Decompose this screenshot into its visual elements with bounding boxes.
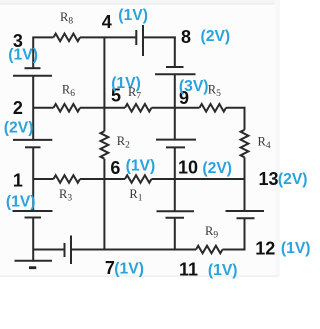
svg-text:(1V): (1V) — [208, 262, 238, 279]
svg-text:(2V): (2V) — [4, 119, 34, 136]
svg-text:6: 6 — [110, 158, 120, 178]
middle rail lower (6 to 7) — [103, 159, 105, 250]
wire to right corner — [226, 107, 245, 109]
resistor R5 — [200, 104, 227, 112]
resistor R3 — [54, 175, 81, 183]
right rail top (from R5 corner) — [244, 107, 246, 130]
battery 3-2 short plate — [25, 67, 41, 69]
svg-text:(1V): (1V) — [6, 193, 36, 210]
resistor R1 — [125, 175, 152, 183]
battery 10-11 short plate — [166, 217, 185, 219]
battery 13-12 short plate — [237, 217, 255, 219]
left rail lower — [32, 147, 34, 211]
faint top band — [0, 0, 275, 4]
middle rail upper (4 to 5) — [103, 36, 105, 131]
bottom battery short plate — [64, 243, 66, 257]
svg-text:8: 8 — [181, 27, 191, 47]
svg-text:(1V): (1V) — [111, 75, 141, 92]
left rail upper — [32, 36, 34, 68]
wire top: node 3 to battery — [33, 36, 53, 38]
svg-text:(2V): (2V) — [278, 171, 308, 188]
svg-text:4: 4 — [102, 12, 112, 32]
battery 1-gnd long plate — [13, 210, 53, 212]
canvas cell background — [0, 4, 275, 276]
right rail to node 12 corner — [244, 218, 246, 250]
svg-text:(2V): (2V) — [202, 160, 232, 177]
svg-text:(2V): (2V) — [201, 28, 231, 45]
svg-text:12: 12 — [255, 239, 275, 259]
battery V4-8 short plate — [135, 30, 137, 45]
battery 10-11 long plate — [157, 210, 195, 212]
resistor R6 — [54, 104, 81, 112]
battery 8-9 long plate — [155, 73, 196, 75]
svg-text:2: 2 — [13, 98, 23, 118]
wire node5 — [80, 107, 125, 109]
rail 9 to battery — [174, 74, 176, 139]
resistor R2 — [101, 131, 109, 159]
resistor R8 — [54, 34, 81, 42]
battery 9-10 long plate — [156, 139, 196, 141]
battery 1-gnd short plate — [25, 217, 42, 219]
battery 2-1 long plate — [13, 139, 52, 141]
svg-text:(1V): (1V) — [8, 46, 38, 63]
resistor R7 — [125, 104, 152, 112]
wire row2: node 2 — [33, 107, 53, 109]
left rail mid — [32, 76, 34, 140]
wire bottom mid node7 node11 — [71, 249, 196, 251]
bottom terminal bar — [15, 260, 53, 262]
rail 8-9-10-11 upper — [174, 36, 176, 67]
svg-text:10: 10 — [178, 157, 198, 177]
svg-text:(1V): (1V) — [281, 240, 311, 257]
svg-text:13: 13 — [259, 169, 279, 189]
rail to node 11 — [174, 218, 176, 250]
battery 2-1 short plate — [25, 146, 41, 148]
svg-text:(3V): (3V) — [179, 78, 209, 95]
svg-text:11: 11 — [179, 260, 198, 280]
wire row3: node 1 — [33, 178, 53, 180]
wire bottom left — [33, 249, 64, 251]
left rail bottom — [32, 218, 34, 262]
right rail to node 13 — [244, 157, 246, 211]
resistor R4 — [241, 130, 249, 158]
wire node6 — [80, 178, 125, 180]
battery 3-2 long plate — [13, 75, 52, 77]
battery V4-8 long plate — [142, 25, 144, 56]
battery 9-10 short plate — [166, 146, 185, 148]
wire to node 8 corner — [143, 36, 176, 38]
wire node9 — [152, 107, 200, 109]
wire node10 to node13 — [152, 178, 246, 180]
rail 10 to battery — [174, 147, 176, 211]
battery 13-12 long plate — [226, 210, 265, 212]
wire — [80, 36, 136, 38]
battery 8-9 short plate — [166, 66, 184, 68]
wire to node12 corner — [223, 249, 246, 251]
minus sign — [29, 266, 36, 269]
resistor R9 — [196, 246, 223, 254]
svg-text:(1V): (1V) — [118, 7, 148, 24]
svg-text:(1V): (1V) — [126, 157, 156, 174]
bottom battery long plate — [70, 236, 72, 265]
svg-text:(1V): (1V) — [114, 260, 144, 277]
svg-text:1: 1 — [13, 171, 23, 191]
faint bottom boundary — [0, 275, 278, 277]
faint right column band — [275, 0, 280, 277]
